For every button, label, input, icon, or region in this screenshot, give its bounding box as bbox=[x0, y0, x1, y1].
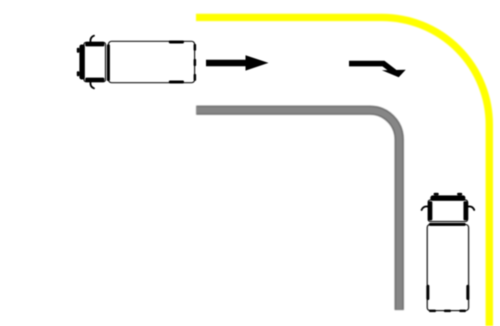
gray road line (light core) bbox=[196, 110, 399, 309]
truck T2 (bottom-right, facing up) bbox=[422, 193, 475, 312]
truck T1 (top-left, facing left) bbox=[77, 36, 196, 89]
turn-right arrow shaft bbox=[349, 64, 395, 72]
gray road line (dark edge layer) bbox=[196, 110, 399, 310]
turn-right arrow head bbox=[382, 70, 406, 77]
straight arrow bbox=[206, 55, 269, 70]
yellow road edge line bbox=[196, 17, 489, 326]
